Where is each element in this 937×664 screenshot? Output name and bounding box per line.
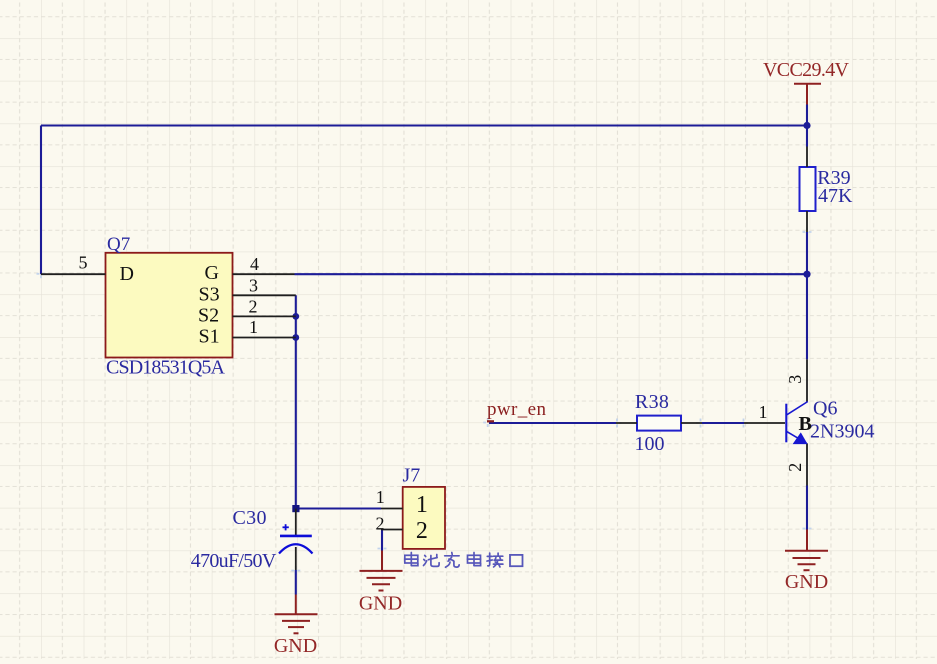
- svg-text:Q6: Q6: [813, 397, 837, 419]
- svg-text:100: 100: [635, 433, 665, 455]
- svg-text:GND: GND: [359, 593, 402, 615]
- pin R39 top: [806, 147, 808, 168]
- svg-text:C30: C30: [233, 507, 267, 529]
- junction dot S2: [292, 313, 299, 320]
- svg-text:pwr_en: pwr_en: [487, 399, 547, 420]
- pin 5 D: [41, 273, 106, 275]
- svg-text:S3: S3: [199, 283, 220, 305]
- pin 1 J7: [381, 508, 403, 510]
- svg-text:1: 1: [759, 402, 768, 422]
- pin 3 collector: [806, 359, 808, 401]
- pin C30 top: [295, 509, 297, 536]
- transistor Q6: [744, 359, 808, 485]
- wire left vertical: [40, 126, 42, 275]
- svg-text:VCC29.4V: VCC29.4V: [763, 59, 850, 81]
- wire R39 to collector: [806, 232, 808, 359]
- svg-text:S1: S1: [199, 326, 220, 348]
- mosfet Q7 body: [106, 253, 233, 358]
- pin 2 S2: [233, 315, 296, 317]
- gnd stem C30: [295, 595, 297, 614]
- svg-text:1: 1: [376, 487, 385, 507]
- pin 1 base: [744, 422, 785, 424]
- svg-text:2: 2: [249, 297, 258, 317]
- svg-text:GND: GND: [785, 571, 828, 593]
- pin 1 S1: [233, 337, 296, 339]
- pin 3 S3: [233, 294, 296, 296]
- ground C30: [275, 614, 318, 633]
- glyph 电 second: [468, 553, 481, 566]
- resistor R39: [800, 167, 816, 211]
- gnd stem Q6: [806, 530, 808, 551]
- svg-text:J7: J7: [403, 465, 421, 487]
- wire gate horizontal: [295, 273, 808, 275]
- svg-text:2: 2: [785, 463, 805, 472]
- svg-text:470uF/50V: 470uF/50V: [191, 550, 277, 572]
- junction dot gate column: [803, 271, 810, 278]
- emitter arrow Q6: [793, 432, 808, 444]
- glyph 池: [424, 555, 440, 567]
- wire top horizontal net: [41, 124, 807, 126]
- emitter stroke Q6: [787, 432, 807, 444]
- pin R38 right: [681, 422, 702, 424]
- svg-text:G: G: [205, 262, 219, 284]
- svg-text:2: 2: [416, 518, 428, 544]
- base bar Q6: [785, 404, 787, 443]
- junction dot S1: [292, 334, 299, 341]
- svg-text:GND: GND: [274, 635, 317, 657]
- pin C30 bottom: [295, 547, 297, 570]
- svg-text:47K: 47K: [818, 185, 853, 207]
- svg-text:3: 3: [249, 275, 258, 295]
- svg-text:4: 4: [250, 254, 259, 274]
- svg-text:R38: R38: [635, 391, 669, 413]
- svg-text:3: 3: [785, 375, 805, 384]
- plus mark: [283, 526, 289, 528]
- connector J7 body: [403, 487, 445, 549]
- wire emitter to GND: [806, 486, 808, 530]
- svg-text:2N3904: 2N3904: [810, 420, 874, 442]
- wire VCC column upper: [806, 105, 808, 147]
- glyph 接: [487, 553, 503, 567]
- collector stroke Q6: [787, 402, 808, 415]
- resistor R38: [637, 416, 681, 431]
- svg-text:CSD18531Q5A: CSD18531Q5A: [106, 357, 226, 379]
- pin R39 bottom: [806, 211, 808, 232]
- wire C30 lower: [295, 570, 297, 595]
- junction dot top: [803, 122, 810, 129]
- glyph 充: [445, 553, 460, 568]
- svg-text:1: 1: [416, 492, 428, 518]
- junction square C30 node: [292, 505, 299, 512]
- gnd stem J7: [381, 551, 383, 571]
- svg-text:Q7: Q7: [107, 234, 130, 255]
- wire pwr_en to R38: [489, 422, 616, 424]
- glyph 口: [510, 555, 523, 566]
- pin 2 emitter: [806, 443, 808, 485]
- pin R38 left: [616, 422, 637, 424]
- pin 2 J7: [381, 529, 403, 531]
- svg-text:S2: S2: [198, 305, 219, 327]
- pin 4 G: [233, 273, 295, 275]
- wire junction to J7: [296, 507, 381, 509]
- plate C30 curved: [279, 544, 313, 553]
- power port VCC29.4V symbol: [794, 84, 821, 105]
- svg-text:1: 1: [249, 317, 258, 337]
- wire S-pins vertical: [295, 295, 297, 508]
- ground Q6: [785, 551, 828, 571]
- hotspot crosses: [37, 228, 812, 575]
- svg-text:2: 2: [376, 514, 385, 534]
- svg-text:5: 5: [79, 252, 88, 272]
- glyph 电: [405, 553, 418, 566]
- net tick pwr_en: [487, 420, 494, 422]
- wire R38 to base: [702, 422, 744, 424]
- capacitor C30: [279, 509, 313, 571]
- text 电池充电接口 (hand-drawn glyphs): [405, 553, 523, 568]
- wire J7 pin2 down: [381, 530, 383, 551]
- plate C30 positive: [280, 535, 312, 538]
- svg-text:D: D: [120, 263, 134, 285]
- ground J7: [360, 571, 403, 591]
